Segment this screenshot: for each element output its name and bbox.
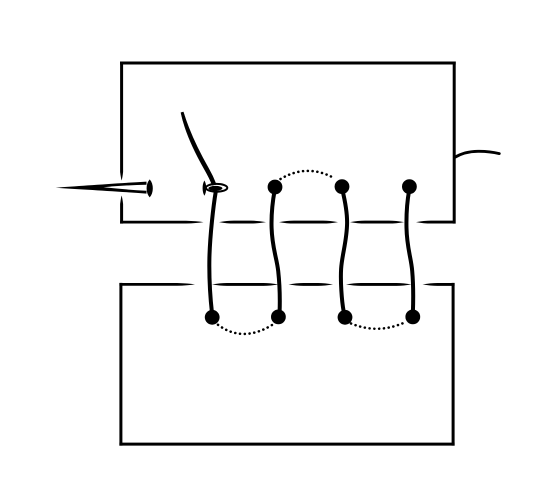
needle eye oval [206,184,227,192]
top fabric piece [120,62,456,224]
bottom fabric piece [119,283,454,446]
top edge of bottom piece (cut line segments, tapered) [119,283,454,286]
wire left edge lower (below needle gap) [120,196,123,224]
wire seam segment 8 [289,283,334,286]
thread stitch 2 [272,190,280,312]
hidden thread dotted arc top (between top dots 1-2) [281,171,334,179]
wire left edge upper (above needle gap) [120,62,123,181]
thread stitch 3 [341,190,347,311]
thread through eye [208,186,222,191]
wire seam segment 3 [279,221,338,224]
stitch hole dot top 2 [335,179,350,194]
needle head bar [203,181,207,196]
thread stitch 1 (eye to bottom dot 1) [209,192,215,313]
stitch hole dot bottom 3 [338,310,353,325]
needle bore (white interior) [104,185,147,191]
wire bottom edge of bottom piece [119,443,454,446]
thread tail curling up from eye [181,112,216,185]
second needle head (seen end-on) [203,181,228,196]
stitch hole dot bottom 4 [405,310,420,325]
stitch hole dot top 3 [402,179,417,194]
wire seam segment 7 [212,283,279,286]
wire seam segment 1 [120,221,203,224]
stitch hole dot bottom 1 [205,310,220,325]
hidden thread dotted arc bottom right (between bottom dots 3-4) [351,323,405,329]
wire seam segment 5 [416,221,455,224]
wire right edge of bottom piece [452,283,455,446]
stitch hole dot top 1 [268,180,283,195]
thread tail exiting right side [455,151,500,157]
needle body [56,182,147,194]
wire left edge of bottom piece [119,283,122,446]
wire seam segment 10 [423,283,455,286]
stitch hole dot bottom 2 [271,310,286,325]
hidden thread dotted arc bottom left (between bottom dots 1-2) [218,325,272,334]
wire seam segment 6 [119,283,195,286]
wire right edge of top piece [453,62,456,224]
thread stitch 4 [406,190,413,312]
wire seam segment 4 [350,221,404,224]
needle head [147,179,153,197]
needle (awl) entering from left [56,179,153,197]
wire seam segment 2 [219,221,266,224]
wire seam segment 9 [346,283,412,286]
wire top edge of top piece [120,62,456,65]
bottom edge of top piece (cut line segments, tapered) [120,221,455,224]
